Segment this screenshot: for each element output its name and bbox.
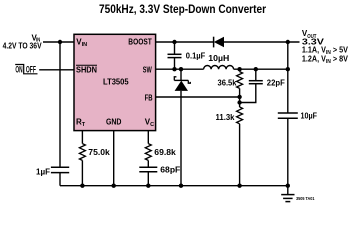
junction VOUT/L1 (286, 67, 290, 71)
svg-text:22pF: 22pF (267, 79, 285, 88)
svg-text:SW: SW (143, 65, 152, 74)
wire L1 to VOUT (234, 68, 288, 70)
resistor R3 75.0k (79, 144, 110, 161)
resistor R2 11.3k (216, 107, 243, 124)
capacitor C1 0.1uF (168, 42, 206, 69)
svg-text:11.3k: 11.3k (216, 113, 236, 122)
pin FB of U1 (145, 93, 153, 102)
svg-text:68pF: 68pF (160, 166, 180, 175)
wire C2 to ground rail (59, 173, 61, 186)
wire FB to U1 (156, 96, 240, 98)
svg-text:4.2V TO 36V: 4.2V TO 36V (3, 42, 43, 51)
junction L1/R1 (237, 67, 241, 71)
junction SW/C1 (172, 67, 176, 71)
junction rail C4 (146, 184, 150, 188)
junction rail GND (112, 184, 116, 188)
wire VIN input to U1 (43, 41, 74, 43)
svg-text:36.5k: 36.5k (218, 78, 238, 87)
svg-text:1µF: 1µF (36, 168, 50, 177)
diode D1 boost (214, 37, 224, 48)
svg-text:ON: ON (15, 64, 22, 74)
wire VIN node down to C2 (59, 42, 61, 167)
wire SHDN input to U1 (39, 69, 74, 71)
wire VOUT down to C5 (287, 42, 289, 113)
junction BOOST/C1 (172, 40, 176, 44)
svg-text:3505 TA01: 3505 TA01 (296, 196, 315, 201)
junction SW/D2 (179, 67, 183, 71)
pin GND of U1 (106, 117, 122, 126)
capacitor C5 10uF (278, 112, 317, 121)
junction rail VOUT (286, 184, 290, 188)
wire VC to R4 (147, 131, 149, 144)
pin SW of U1 (143, 65, 152, 74)
svg-text:BOOST: BOOST (128, 38, 152, 47)
wire BOOST to D1 (156, 41, 214, 43)
svg-text:75.0k: 75.0k (88, 148, 110, 157)
svg-text:0.1µF: 0.1µF (186, 51, 206, 60)
svg-text:SHDN: SHDN (76, 65, 97, 74)
svg-text:LT3505: LT3505 (103, 77, 129, 86)
svg-text:OFF: OFF (26, 64, 36, 74)
pin SHDN of U1 (76, 65, 97, 74)
junction rail R2 (237, 184, 241, 188)
capacitor C2 1uF (36, 167, 69, 176)
op-amp U1 LT3505 body (74, 34, 156, 130)
svg-text:FB: FB (145, 93, 153, 102)
junction rail R3 (80, 184, 84, 188)
wire C5 to ground rail (287, 118, 289, 185)
inductor L1 10uH (204, 54, 234, 69)
svg-text:GND: GND (106, 117, 122, 126)
wire C4 to ground rail (147, 172, 149, 186)
wire SW to L1 (156, 68, 204, 70)
pin VIN of U1 (76, 37, 87, 48)
junction VIN node (58, 40, 62, 44)
svg-text:10µF: 10µF (301, 112, 318, 121)
wire ground rail (60, 185, 288, 187)
svg-text:750kHz, 3.3V Step-Down Convert: 750kHz, 3.3V Step-Down Converter (99, 4, 266, 16)
junction FB node (237, 95, 241, 99)
svg-text:10µH: 10µH (208, 54, 229, 63)
capacitor C4 68pF (139, 166, 180, 175)
junction C3 return (237, 100, 241, 104)
junction rail D2 (179, 184, 183, 188)
wire RT to R3 (81, 131, 83, 144)
wire R3 to ground rail (81, 160, 83, 185)
resistor R4 69.8k (145, 144, 176, 161)
wire R1 to FB node (239, 88, 241, 107)
junction L1/C3 (254, 67, 258, 71)
wire D1 to VOUT node (224, 41, 300, 43)
junction VOUT top (286, 40, 290, 44)
node ON/OFF label (15, 64, 37, 74)
wire GND to ground rail (113, 131, 115, 186)
ground (281, 186, 315, 202)
node VOUT label (302, 29, 349, 65)
svg-text:69.8k: 69.8k (154, 148, 176, 157)
wire C3 to FB node (240, 84, 256, 103)
pin BOOST of U1 (128, 38, 152, 47)
svg-text:1.2A, VIN > 8V: 1.2A, VIN > 8V (302, 54, 349, 65)
pin RT of U1 (76, 117, 86, 128)
wire R2 to ground rail (239, 124, 241, 186)
pin VC of U1 (145, 117, 154, 128)
title (99, 4, 266, 16)
diode D2 catch schottky (174, 69, 190, 186)
node VIN input label (3, 33, 43, 50)
wire R4 to C4 (147, 160, 149, 167)
capacitor C3 22pF (249, 69, 285, 87)
resistor R1 36.5k (218, 69, 243, 88)
